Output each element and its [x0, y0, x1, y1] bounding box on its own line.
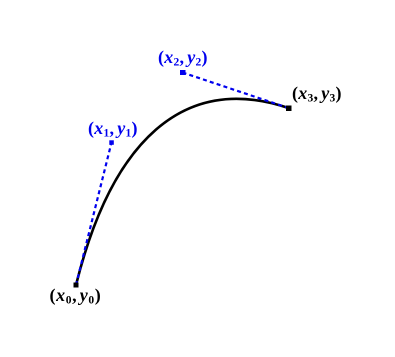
node label (x1,y1)	[88, 120, 138, 142]
node label (x0,y0)	[50, 287, 102, 309]
wire control segment P2-P3 dashed	[183, 73, 289, 109]
node label (x2,y2)	[158, 49, 208, 71]
node label (x3,y3)	[292, 85, 342, 107]
node P2	[180, 70, 186, 75]
node P3	[286, 106, 292, 112]
bezier curve	[76, 99, 289, 285]
node P1	[109, 140, 114, 145]
node P0	[74, 283, 79, 288]
wire control segment P0-P1 dashed	[76, 143, 112, 286]
